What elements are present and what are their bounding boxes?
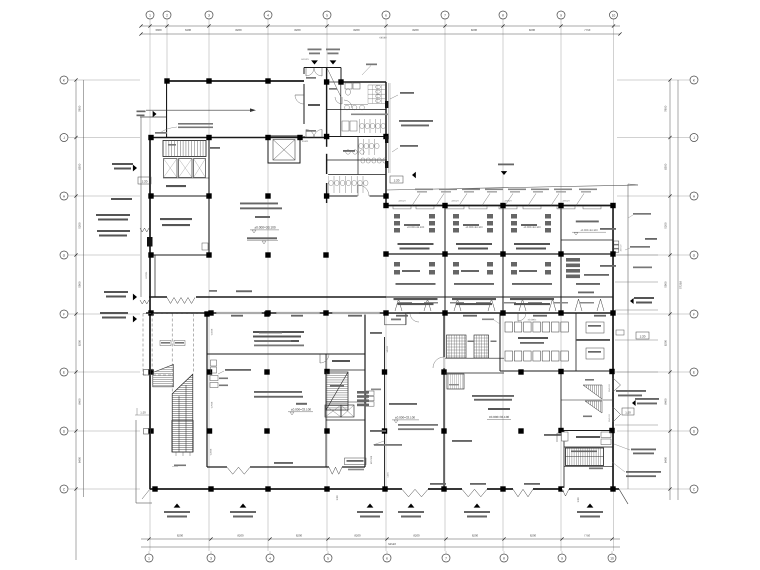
svg-text:8200: 8200	[664, 339, 668, 346]
svg-text:7800: 7800	[78, 105, 82, 112]
svg-text:8300: 8300	[78, 163, 82, 170]
svg-text:8200: 8200	[530, 534, 537, 538]
svg-text:4: 4	[269, 556, 271, 560]
svg-text:8200: 8200	[177, 534, 184, 538]
svg-text:PW1023: PW1023	[608, 383, 611, 392]
svg-text:6: 6	[386, 556, 388, 560]
svg-text:1:20: 1:20	[394, 178, 400, 182]
svg-text:5200: 5200	[78, 222, 82, 229]
svg-text:M1823: M1823	[302, 140, 309, 143]
svg-text:±0.000=33.100: ±0.000=33.100	[465, 226, 483, 229]
svg-text:10: 10	[612, 13, 616, 17]
svg-text:±0.000=33.100: ±0.000=33.100	[395, 416, 415, 420]
svg-text:8: 8	[502, 13, 504, 17]
svg-text:2: 2	[166, 13, 168, 17]
svg-text:5900: 5900	[185, 28, 192, 32]
svg-text:1:20: 1:20	[640, 334, 646, 338]
svg-text:8200: 8200	[529, 28, 536, 32]
svg-text:±0.000=33.100: ±0.000=33.100	[254, 226, 276, 230]
svg-text:C1508: C1508	[211, 328, 214, 335]
svg-text:10: 10	[610, 556, 614, 560]
svg-text:MC2308: MC2308	[370, 455, 373, 464]
svg-text:57268: 57268	[679, 281, 683, 289]
svg-text:±0.000=33.100: ±0.000=33.100	[291, 408, 311, 412]
svg-text:1:20: 1:20	[577, 497, 580, 503]
svg-text:7: 7	[445, 556, 447, 560]
svg-text:8200: 8200	[235, 28, 242, 32]
svg-text:±0.000=33.100: ±0.000=33.100	[523, 226, 541, 229]
svg-text:JW1527: JW1527	[562, 200, 570, 203]
svg-text:JW1527: JW1527	[398, 200, 406, 203]
svg-text:7750: 7750	[584, 28, 591, 32]
svg-text:1:20: 1:20	[625, 410, 631, 414]
svg-text:PW1023: PW1023	[608, 413, 611, 422]
svg-text:M0122: M0122	[386, 345, 389, 352]
svg-text:7800: 7800	[664, 105, 668, 112]
svg-text:JW1527: JW1527	[620, 243, 623, 251]
svg-text:JW1527: JW1527	[451, 200, 459, 203]
svg-text:7750: 7750	[584, 534, 591, 538]
svg-text:8200: 8200	[472, 534, 479, 538]
svg-text:8200: 8200	[353, 28, 360, 32]
svg-text:8: 8	[503, 556, 505, 560]
svg-text:F: F	[63, 312, 65, 316]
svg-text:3300: 3300	[155, 28, 162, 32]
svg-text:C7508: C7508	[211, 401, 214, 408]
svg-text:5: 5	[326, 13, 328, 17]
svg-text:5900: 5900	[78, 281, 82, 288]
svg-text:5: 5	[327, 556, 329, 560]
svg-text:8300: 8300	[664, 163, 668, 170]
svg-text:±0.000=33.100: ±0.000=33.100	[407, 226, 425, 229]
svg-text:8200: 8200	[354, 534, 361, 538]
svg-text:JW1527: JW1527	[504, 200, 512, 203]
svg-text:8400: 8400	[78, 398, 82, 405]
svg-text:C2608: C2608	[210, 448, 213, 455]
svg-text:8200: 8200	[237, 534, 244, 538]
svg-text:MF1821: MF1821	[301, 58, 309, 61]
svg-text:5200: 5200	[664, 222, 668, 229]
svg-text:9: 9	[560, 13, 562, 17]
svg-text:7: 7	[444, 13, 446, 17]
svg-text:C026: C026	[387, 472, 390, 478]
svg-text:8400: 8400	[78, 456, 82, 463]
svg-text:E: E	[693, 370, 695, 374]
svg-text:8200: 8200	[78, 339, 82, 346]
svg-text:8200: 8200	[296, 534, 303, 538]
svg-text:1: 1	[149, 13, 151, 17]
svg-text:64540: 64540	[379, 37, 387, 40]
svg-text:4: 4	[267, 13, 269, 17]
svg-text:3: 3	[208, 13, 210, 17]
svg-text:8200: 8200	[294, 28, 301, 32]
svg-text:64540: 64540	[388, 542, 396, 546]
svg-text:M2008: M2008	[366, 391, 369, 398]
svg-text:±0.000=33.100: ±0.000=33.100	[489, 415, 509, 419]
svg-text:8200: 8200	[471, 28, 478, 32]
svg-text:8200: 8200	[412, 28, 419, 32]
svg-text:±0.000=: ±0.000=	[528, 319, 537, 322]
svg-text:8200: 8200	[413, 534, 420, 538]
svg-text:M2321: M2321	[145, 271, 148, 278]
svg-text:E: E	[63, 370, 65, 374]
svg-text:8400: 8400	[664, 456, 668, 463]
svg-text:8400: 8400	[664, 398, 668, 405]
svg-text:±0.000=33.100: ±0.000=33.100	[580, 229, 598, 232]
svg-text:5900: 5900	[664, 281, 668, 288]
svg-text:1:20: 1:20	[142, 179, 148, 183]
svg-text:1: 1	[148, 556, 150, 560]
svg-text:9: 9	[561, 556, 563, 560]
svg-text:F: F	[693, 312, 695, 316]
svg-text:1:20: 1:20	[336, 495, 339, 501]
svg-text:1:20: 1:20	[140, 411, 146, 415]
svg-text:6: 6	[385, 13, 387, 17]
svg-text:3: 3	[210, 556, 212, 560]
